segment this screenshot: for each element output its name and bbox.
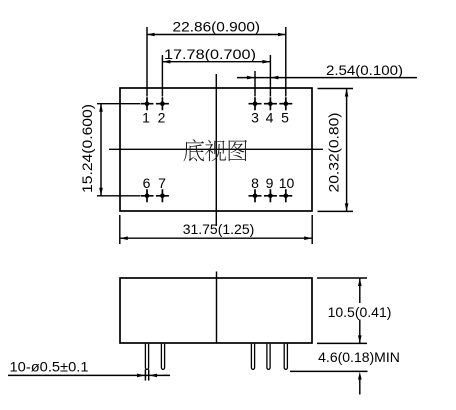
svg-text:7: 7	[158, 175, 166, 191]
svg-text:10-ø0.5±0.1: 10-ø0.5±0.1	[10, 359, 89, 375]
svg-text:4.6(0.18)MIN: 4.6(0.18)MIN	[318, 349, 400, 365]
svg-text:5: 5	[281, 110, 289, 126]
svg-text:10.5(0.41): 10.5(0.41)	[328, 304, 392, 320]
svg-text:6: 6	[143, 175, 151, 191]
svg-text:17.78(0.700): 17.78(0.700)	[164, 46, 256, 62]
svg-text:10: 10	[279, 175, 295, 191]
svg-text:31.75(1.25): 31.75(1.25)	[183, 221, 255, 237]
svg-text:2.54(0.100): 2.54(0.100)	[326, 62, 403, 78]
svg-text:3: 3	[251, 110, 259, 126]
svg-text:2: 2	[158, 110, 166, 126]
svg-text:15.24(0.600): 15.24(0.600)	[79, 104, 95, 193]
svg-text:1: 1	[142, 110, 150, 126]
svg-text:4: 4	[266, 110, 274, 126]
svg-text:9: 9	[266, 175, 274, 191]
svg-text:22.86(0.900): 22.86(0.900)	[173, 19, 261, 35]
svg-text:20.32(0.80): 20.32(0.80)	[326, 113, 342, 193]
svg-text:8: 8	[251, 175, 259, 191]
